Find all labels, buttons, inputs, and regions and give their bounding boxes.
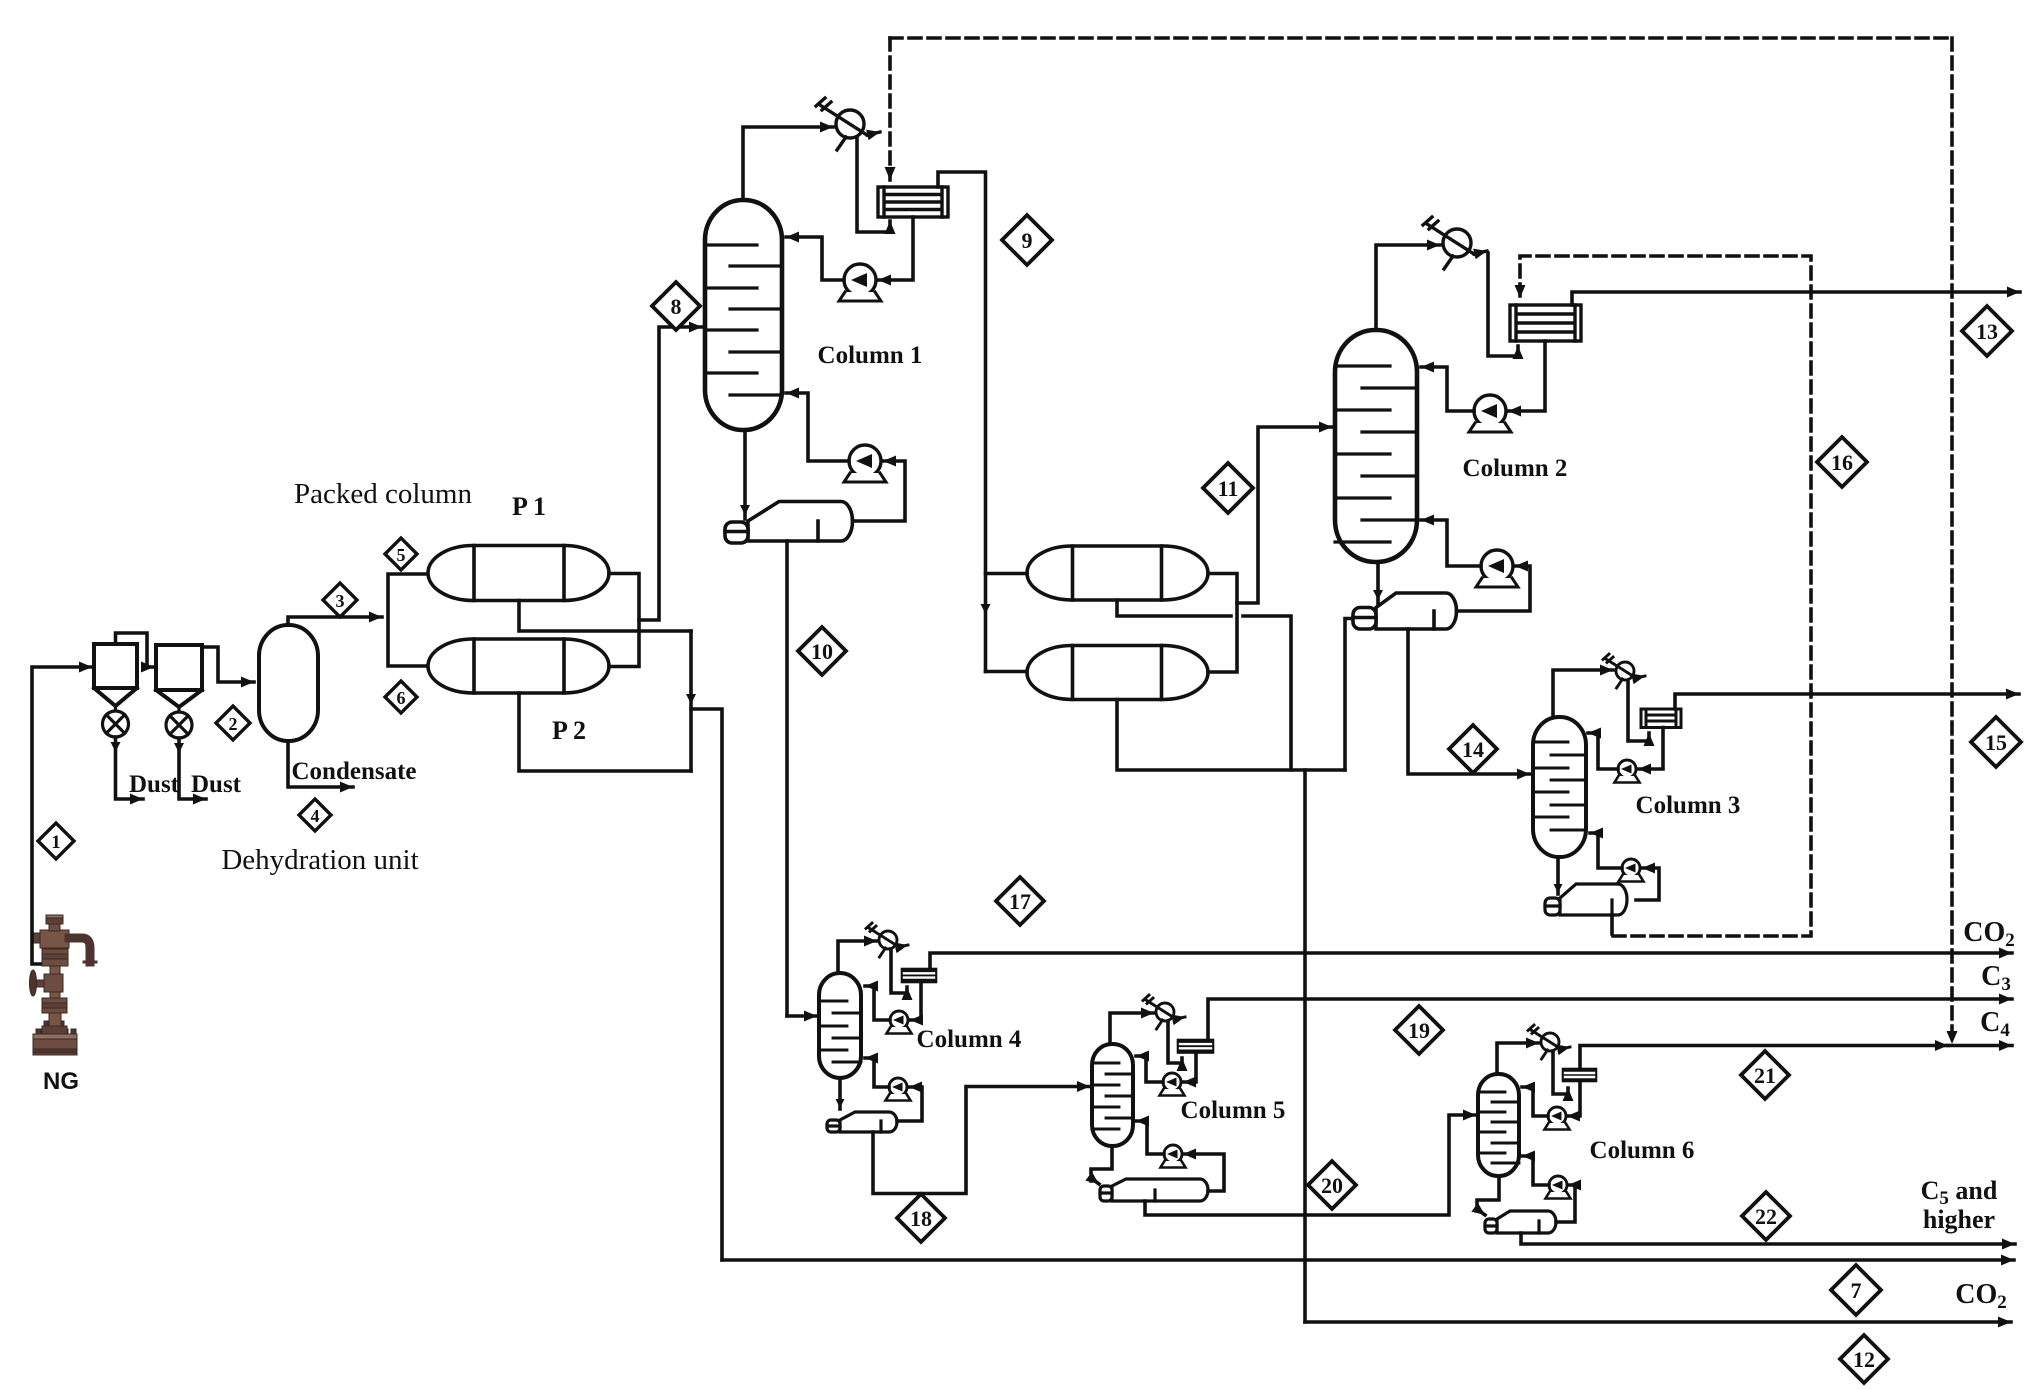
column C6 vessel — [1478, 1074, 1519, 1176]
svg-text:1: 1 — [51, 832, 61, 853]
wire stream8 riser to column1 — [639, 327, 702, 620]
svg-text:Column 5: Column 5 — [1181, 1097, 1286, 1124]
reboiler drum D5 — [1100, 1179, 1208, 1201]
svg-text:11: 11 — [1218, 476, 1239, 501]
node diamond 15 — [1971, 717, 2021, 767]
wire stream17 E4 to CO2 outlet — [930, 953, 2012, 969]
wire reflux return C3 — [1588, 733, 1618, 769]
svg-text:7: 7 — [1851, 1278, 1862, 1303]
svg-text:16: 16 — [1831, 450, 1853, 475]
svg-text:8: 8 — [671, 294, 682, 319]
wire P bottoms manifold — [689, 631, 693, 771]
svg-text:15: 15 — [1985, 730, 2007, 755]
wire P-train left manifold — [388, 574, 426, 666]
node diamond 3 — [323, 583, 357, 617]
wire drum D4 to reboiler pump — [897, 1087, 922, 1121]
node diamond 7 — [1831, 1265, 1881, 1315]
column C6 trays — [1478, 1092, 1519, 1163]
vessel P1 packed column — [428, 546, 609, 601]
node diamond 21 — [1741, 1051, 1789, 1099]
svg-text:NG: NG — [43, 1068, 79, 1095]
svg-text:P 2: P 2 — [552, 716, 586, 745]
wire condenser C3 to exchanger E3 — [1628, 681, 1649, 741]
reboiler drum D1 — [725, 502, 853, 544]
node diamond 11 — [1203, 463, 1253, 513]
wire stream12 branch down — [1303, 770, 1307, 1322]
svg-text:Column 1: Column 1 — [818, 342, 923, 369]
wire reflux return C4 — [865, 986, 890, 1020]
svg-text:21: 21 — [1754, 1063, 1776, 1088]
wire stream18 C4 bottoms to column5 — [873, 1087, 1090, 1194]
column C1 vessel — [705, 200, 782, 430]
wire reflux return C6 — [1522, 1087, 1548, 1116]
column C2 vessel — [1335, 330, 1417, 562]
wire condenser C2 to exchanger E2 — [1488, 253, 1518, 356]
svg-text:14: 14 — [1462, 737, 1484, 762]
wire condensate out stream4 — [288, 741, 353, 787]
pump C3 reflux — [1615, 760, 1640, 783]
dust filter F2 — [156, 645, 202, 707]
column C2 trays — [1335, 366, 1417, 542]
wire P-train right manifold — [609, 574, 639, 667]
wire condenser C6 to exchanger E6 — [1553, 1051, 1568, 1094]
wire stream11 riser to column2 — [1237, 427, 1332, 603]
svg-text:20: 20 — [1321, 1173, 1343, 1198]
wire condenser C4 to exchanger E4 — [891, 949, 907, 993]
pump C2 reflux — [1469, 395, 1511, 432]
wire stream20 C5 bottoms to column6 — [1145, 1115, 1476, 1215]
column C3 vessel — [1533, 717, 1586, 857]
svg-text:5: 5 — [397, 545, 406, 565]
column C5 vessel — [1092, 1044, 1133, 1146]
wire stream13 E2 to outlet — [1572, 292, 2020, 305]
wire E6 to reflux pump C6 — [1567, 1081, 1580, 1116]
exchanger E6 — [1563, 1069, 1596, 1081]
svg-text:2: 2 — [229, 714, 238, 734]
node diamond 12 — [1840, 1335, 1888, 1383]
exchanger E1 — [878, 187, 948, 217]
wire boilup return C1 — [786, 393, 849, 461]
wire stream1 wellhead to filter1 — [32, 667, 92, 964]
exchanger E5 — [1178, 1040, 1213, 1053]
svg-text:Column 3: Column 3 — [1636, 792, 1741, 819]
wire C3 overhead to condenser — [1553, 670, 1613, 717]
wire train2 bottoms to drum D2 — [1345, 619, 1352, 771]
svg-text:12: 12 — [1853, 1347, 1875, 1372]
svg-text:higher: higher — [1923, 1205, 1995, 1234]
wire dust out 1 — [116, 737, 144, 799]
node diamond 4 — [299, 799, 331, 831]
wire P2 bottom outlet — [519, 693, 691, 771]
svg-text:Column 6: Column 6 — [1590, 1137, 1695, 1164]
svg-text:4: 4 — [311, 806, 320, 826]
wire C2 bottom to drum D2 — [1376, 562, 1380, 604]
node diamond 6 — [385, 681, 417, 713]
svg-text:9: 9 — [1022, 228, 1033, 253]
wire C2 overhead to condenser — [1376, 245, 1440, 330]
wire E4 to reflux pump C4 — [910, 982, 921, 1020]
wire P1 bottom outlet — [519, 601, 691, 632]
node diamond 14 — [1449, 725, 1497, 773]
wire C6 bottom to drum D6 — [1477, 1176, 1499, 1211]
svg-text:18: 18 — [910, 1206, 932, 1231]
dehydration vessel — [259, 625, 318, 741]
svg-text:13: 13 — [1976, 319, 1998, 344]
wire dust out 2 — [179, 738, 206, 799]
svg-text:10: 10 — [811, 639, 833, 664]
wire E5 to reflux pump C5 — [1183, 1053, 1196, 1083]
wire E1 to reflux pump C1 — [878, 217, 913, 280]
wire C4 bottom to drum D4 — [838, 1078, 842, 1109]
svg-text:P 1: P 1 — [512, 492, 546, 521]
vessel P2 packed column — [428, 639, 609, 693]
node diamond 13 — [1962, 306, 2012, 356]
wire feed into C4 — [787, 1014, 817, 1018]
node diamond 17 — [996, 877, 1044, 925]
condenser fan C5 — [1143, 995, 1185, 1029]
condenser fan C6 — [1528, 1025, 1570, 1059]
svg-text:Column 2: Column 2 — [1463, 455, 1568, 482]
wire stream12 bottom line — [1305, 1320, 2011, 1324]
exchanger E2 — [1510, 305, 1581, 341]
wire drum D3 to reboiler pump — [1636, 868, 1659, 900]
pump C6 reflux — [1545, 1107, 1570, 1130]
exchanger E4 — [902, 969, 936, 982]
condenser fan C4 — [866, 923, 908, 957]
svg-text:3: 3 — [336, 591, 345, 611]
wire boilup return C2 — [1421, 520, 1481, 566]
wire boilup return C4 — [865, 1058, 889, 1087]
wire T2B bottom outlet — [1117, 700, 1345, 771]
reboiler drum D6 — [1485, 1211, 1556, 1233]
wire E2 to reflux pump C2 — [1508, 341, 1545, 411]
column C3 trays — [1533, 742, 1586, 830]
wire drum D1 to reboiler pump — [853, 461, 906, 521]
exchanger E3 — [1641, 709, 1681, 728]
reboiler drum D3 — [1545, 884, 1627, 915]
node diamond 2 — [216, 706, 250, 740]
wire stream9 E1 to train2 manifold — [938, 172, 986, 672]
node diamond 22 — [1742, 1192, 1790, 1240]
wire C3 bottom to drum D3 — [1556, 857, 1560, 894]
wire stream7 CO2 bottom line — [722, 1258, 2014, 1262]
column C1 trays — [705, 245, 782, 395]
wire C5 bottom to drum D5 — [1091, 1146, 1112, 1181]
node diamond 20 — [1308, 1161, 1356, 1209]
wire boilup return C6 — [1522, 1156, 1549, 1185]
wire C3 bottoms to dashed stream16 — [1610, 915, 1614, 934]
svg-text:Dust: Dust — [191, 771, 242, 798]
wire stream22 C6 bottoms C5+ outlet — [1521, 1233, 2015, 1244]
pump C4 reboiler — [886, 1078, 911, 1101]
wire drum D6 to reboiler pump — [1556, 1185, 1575, 1222]
svg-text:22: 22 — [1755, 1204, 1777, 1229]
reboiler drum D2 — [1353, 593, 1457, 629]
condenser fan C3 — [1603, 654, 1645, 688]
svg-text:Condensate: Condensate — [291, 758, 416, 785]
wire C5 overhead to condenser — [1110, 1013, 1154, 1044]
column C5 trays — [1092, 1063, 1133, 1129]
node diamond 10 — [798, 627, 846, 675]
wire drum D2 to reboiler pump — [1457, 566, 1531, 611]
wire train2 left stubs — [986, 574, 1028, 672]
valve V2 — [166, 707, 192, 738]
wire T2A bottom outlet — [1117, 600, 1291, 770]
pump C5 reflux — [1160, 1073, 1185, 1096]
wire E3 to reflux pump C3 — [1638, 728, 1663, 770]
wire C4 overhead to condenser — [838, 941, 877, 973]
condenser fan C1 — [816, 98, 880, 150]
svg-text:Column 4: Column 4 — [917, 1026, 1022, 1053]
column C4 trays — [819, 1001, 861, 1062]
vessel T2B exchanger train — [1027, 646, 1208, 700]
column C4 vessel — [819, 973, 861, 1078]
pump C4 reflux — [887, 1011, 912, 1034]
node diamond 18 — [897, 1194, 945, 1242]
vessel T2A exchanger train — [1027, 546, 1208, 600]
pump C1 reflux — [839, 264, 881, 301]
dashed line top to E1 — [888, 38, 892, 180]
reboiler drum D4 — [827, 1112, 897, 1132]
svg-text:Dehydration unit: Dehydration unit — [221, 844, 418, 876]
svg-text:17: 17 — [1009, 889, 1031, 914]
wellhead NG (christmas tree) — [30, 915, 97, 1055]
wire condenser to exchanger E1 — [857, 138, 890, 232]
dashed line right side to C4 product — [1950, 38, 1954, 1044]
wire stream14 C2 bottoms to column3 — [1408, 629, 1530, 774]
wire drum D5 to reboiler pump — [1183, 1154, 1224, 1191]
wire reflux return C1 — [786, 237, 844, 280]
dashed line top horizontal — [890, 36, 1952, 40]
wire C1 bottom to reboiler drum — [743, 430, 747, 519]
node diamond 9 — [1002, 215, 1052, 265]
node diamond 8 — [652, 282, 700, 330]
condenser fan C2 — [1423, 217, 1487, 269]
wire boilup return C3 — [1590, 833, 1622, 868]
pump C3 reboiler — [1619, 859, 1644, 882]
wire stream19 E5 to C3 outlet — [1208, 999, 2012, 1040]
wire stream3 dehydrator to packed columns — [288, 617, 382, 625]
wire reflux return C2 — [1421, 367, 1474, 411]
svg-text:Dust: Dust — [129, 771, 180, 798]
svg-text:Packed column: Packed column — [294, 478, 472, 510]
node diamond 5 — [385, 538, 417, 570]
wire C4 outlet continued — [1948, 1044, 2012, 1048]
wire reflux return C5 — [1136, 1056, 1163, 1082]
wire filter1 to filter2 bridge — [116, 633, 155, 667]
node diamond 19 — [1395, 1006, 1443, 1054]
wire stream15 E3 to outlet — [1675, 694, 2019, 709]
svg-text:6: 6 — [397, 688, 406, 708]
wire stream10 C1 bottoms to column4 — [785, 541, 789, 1016]
pump C1 reboiler — [844, 445, 886, 482]
pump C5 reboiler — [1161, 1145, 1186, 1168]
svg-text:19: 19 — [1408, 1018, 1430, 1043]
dashed stream16 loop drum D3 to E2 — [1520, 256, 1811, 936]
dust filter F1 — [94, 644, 137, 706]
pump C2 reboiler — [1476, 550, 1518, 587]
valve V1 — [103, 706, 129, 737]
wire C1 overhead to condenser — [743, 127, 833, 200]
wire stream21 E6 to C4 outlet — [1580, 1046, 1948, 1070]
wire stream7 P bottoms to CO2 line — [691, 709, 722, 1260]
wire stream2 filter2 to dehydrator — [202, 647, 254, 682]
wire train2 right manifold — [1208, 574, 1237, 673]
pump C6 reboiler — [1546, 1176, 1571, 1199]
node diamond 1 — [38, 823, 74, 859]
wire condenser C5 to exchanger E5 — [1168, 1021, 1182, 1063]
wire boilup return C5 — [1136, 1121, 1164, 1154]
wire C6 overhead to condenser — [1497, 1043, 1539, 1074]
node diamond 16 — [1817, 437, 1867, 487]
